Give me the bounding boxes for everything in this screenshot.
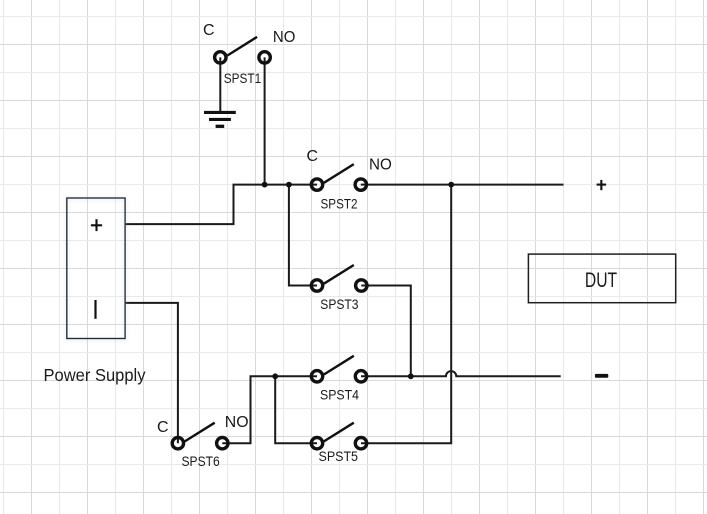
wire branch to SPST3 C — [289, 185, 317, 286]
svg-text:SPST2: SPST2 — [321, 195, 358, 211]
switch SPST5 — [311, 423, 366, 449]
label NO of SPST1 — [273, 29, 296, 46]
svg-text:DUT: DUT — [585, 269, 617, 292]
wire SPST6 NO up to minus rail — [222, 376, 317, 443]
svg-text:SPST6: SPST6 — [182, 453, 220, 469]
label SPST2 — [321, 195, 358, 211]
label C of SPST2 — [307, 148, 319, 165]
svg-text:SPST1: SPST1 — [224, 70, 262, 86]
label DUT — [585, 269, 617, 292]
node junction dot D — [272, 373, 278, 379]
switch SPST1 — [215, 37, 271, 63]
power supply box — [67, 198, 125, 339]
svg-text:NO: NO — [225, 414, 249, 431]
svg-text:NO: NO — [273, 29, 296, 46]
label SPST5 — [319, 448, 359, 464]
label SPST4 — [320, 387, 359, 403]
wire SPST1 NO down to plus node — [264, 57, 266, 184]
wire power supply plus feed — [125, 185, 317, 225]
svg-text:SPST4: SPST4 — [320, 387, 359, 403]
switch SPST2 — [311, 164, 366, 190]
label NO of SPST6 — [225, 414, 249, 431]
label plus terminal — [91, 219, 102, 231]
node minus output — [595, 374, 608, 378]
switch SPST6 — [172, 423, 228, 449]
svg-text:Power Supply: Power Supply — [44, 365, 146, 385]
switch SPST4 — [311, 356, 366, 382]
label C of SPST1 — [203, 22, 215, 39]
label SPST3 — [320, 296, 358, 312]
svg-text:SPST5: SPST5 — [319, 448, 359, 464]
svg-text:SPST3: SPST3 — [320, 296, 358, 312]
svg-text:C: C — [307, 148, 319, 165]
label C of SPST6 — [157, 419, 169, 436]
wire branch to SPST5 C — [275, 376, 317, 443]
wire SPST1 C to ground — [219, 57, 221, 111]
wire plus rail — [361, 184, 564, 186]
wire power supply minus feed to SPST6 C — [125, 303, 178, 443]
node junction dot C — [448, 182, 454, 188]
DUT box — [528, 254, 675, 303]
node junction dot B — [286, 182, 292, 188]
svg-text:C: C — [203, 22, 215, 39]
label Power Supply — [44, 365, 146, 385]
wire SPST3 NO down to minus rail — [361, 286, 411, 377]
svg-text:C: C — [157, 419, 169, 436]
node plus output — [597, 180, 607, 190]
label minus terminal — [94, 300, 96, 319]
label SPST1 — [224, 70, 262, 86]
wire SPST5 NO up to plus rail — [361, 185, 451, 444]
ground — [204, 112, 236, 126]
wire minus rail with hop — [361, 371, 561, 376]
node junction dot E — [408, 373, 414, 379]
label NO of SPST2 — [369, 157, 392, 174]
label SPST6 — [182, 453, 220, 469]
svg-text:NO: NO — [369, 157, 392, 174]
node junction dot A — [262, 182, 268, 188]
switch SPST3 — [311, 265, 367, 291]
